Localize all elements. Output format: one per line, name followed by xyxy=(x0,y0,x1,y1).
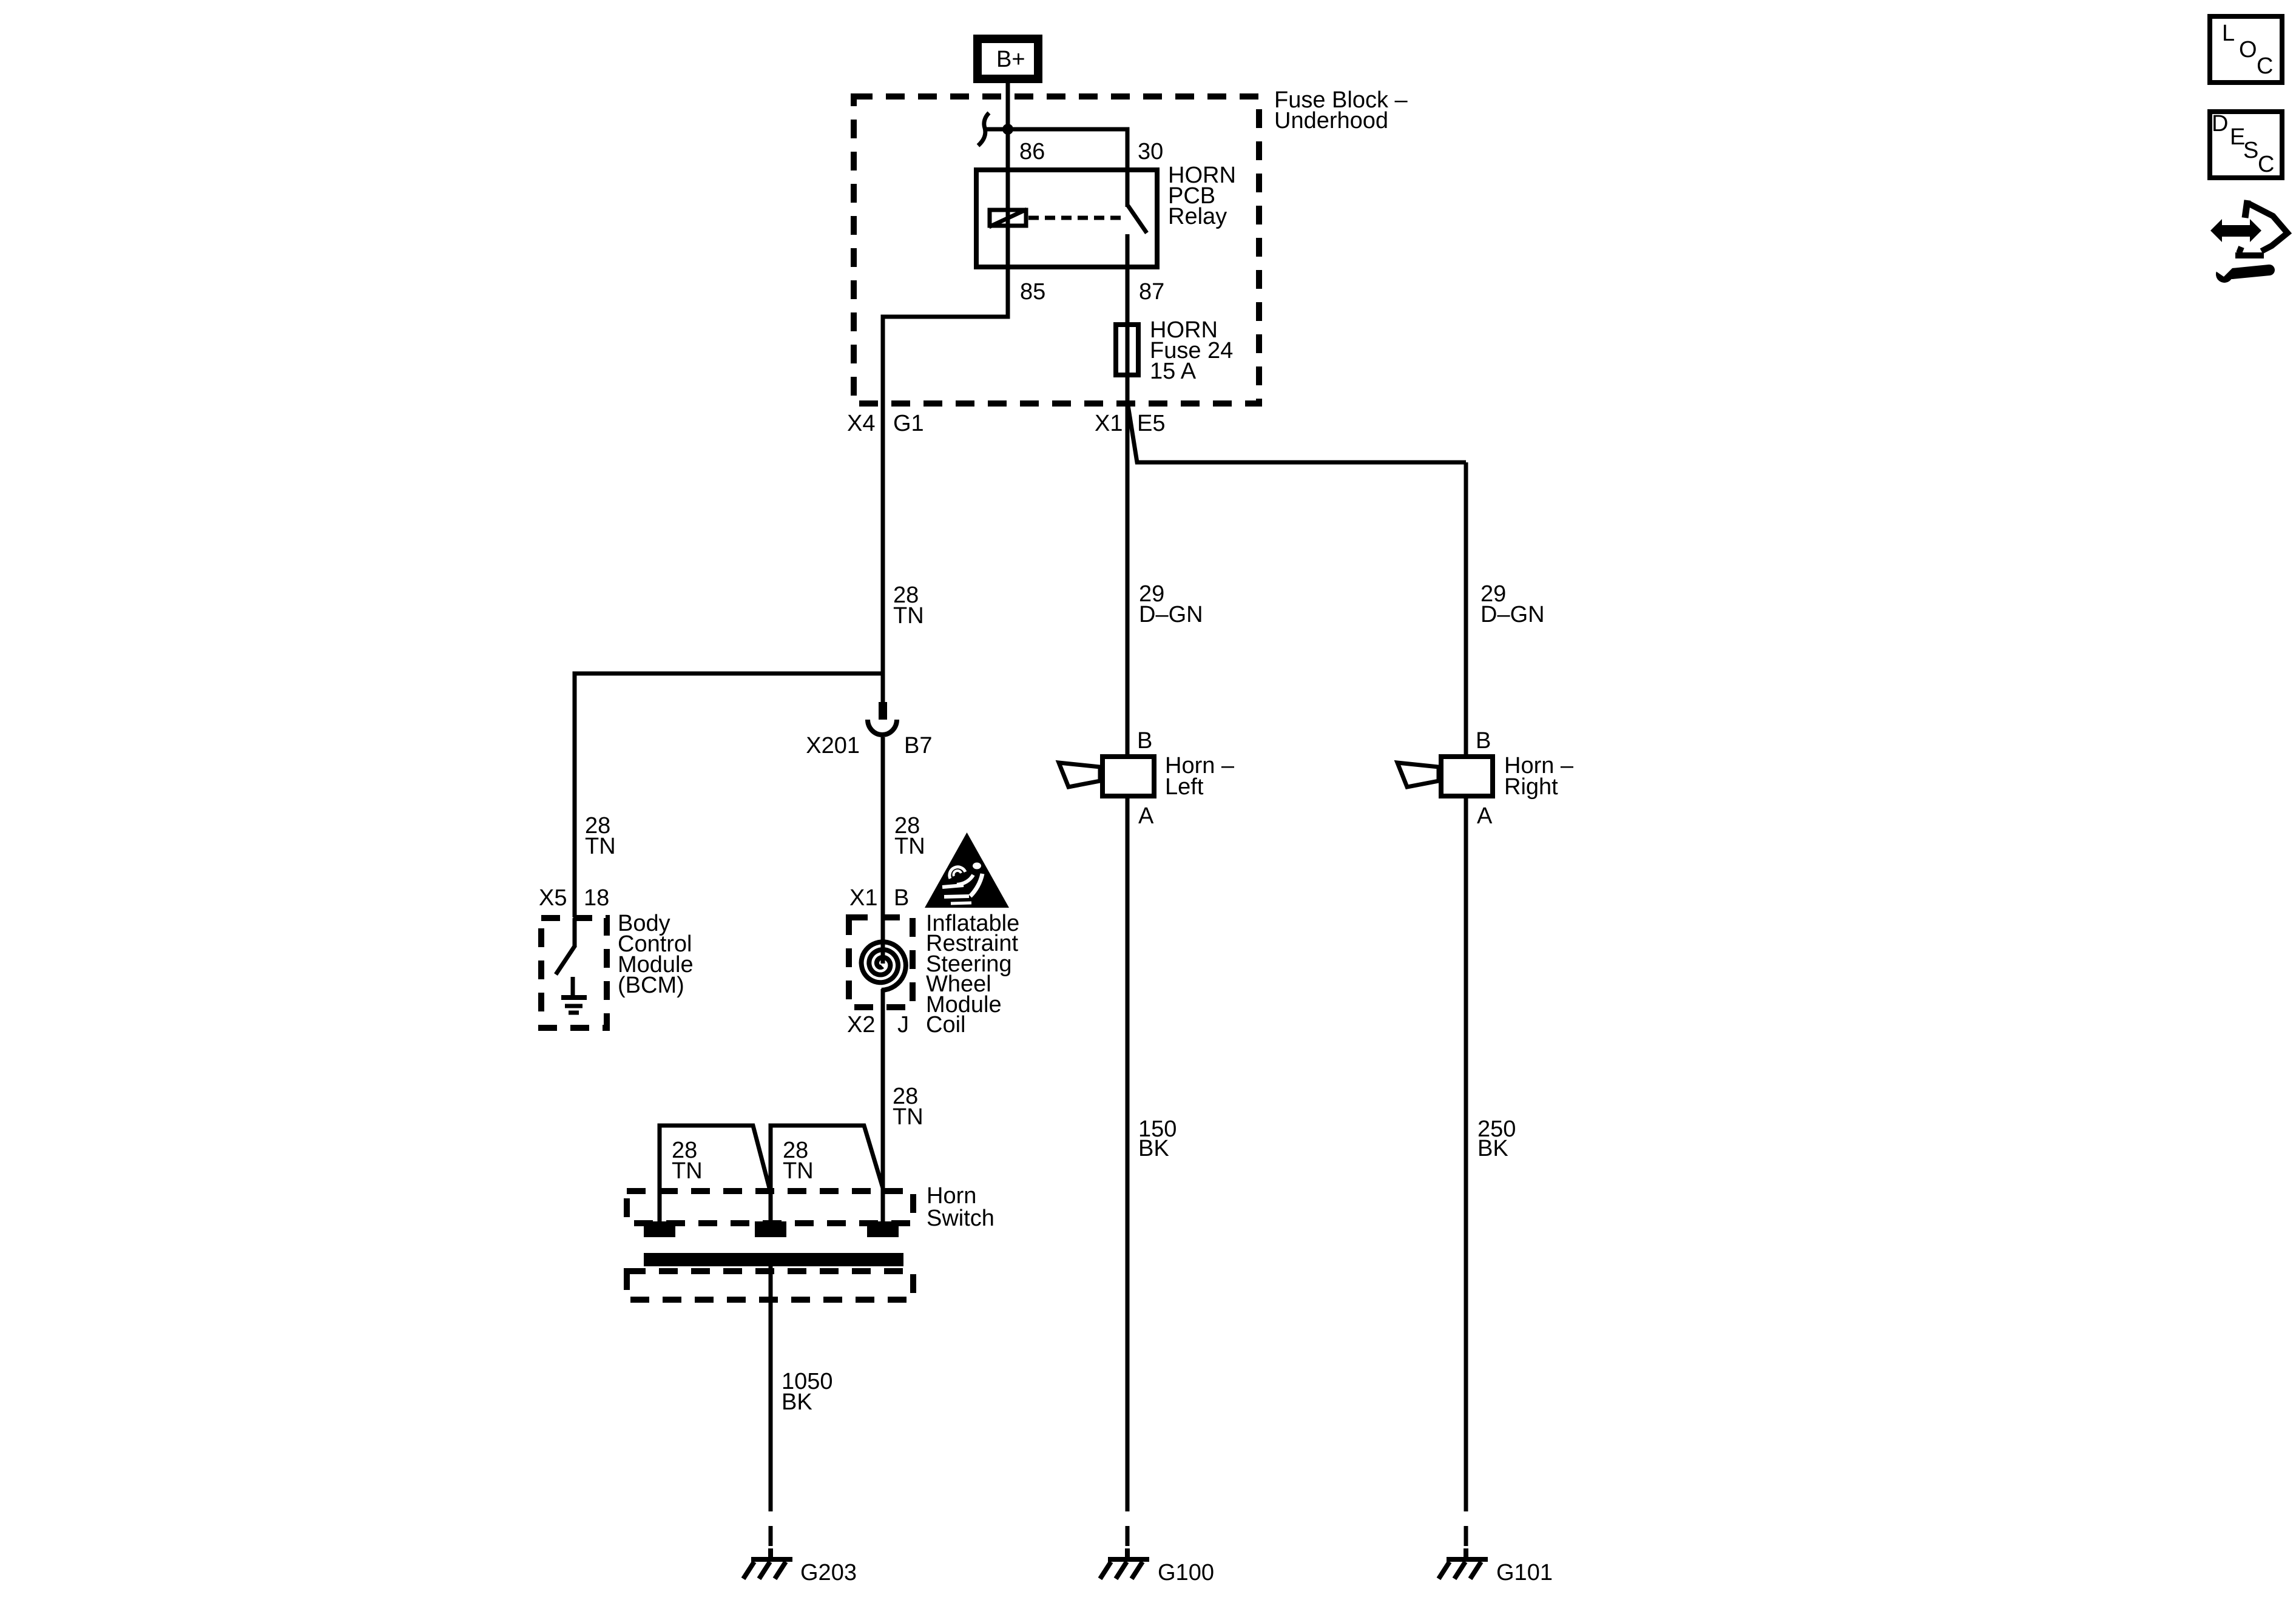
svg-text:D–GN: D–GN xyxy=(1481,602,1545,627)
svg-text:Underhood: Underhood xyxy=(1274,108,1388,133)
wire label 150 BK xyxy=(1138,1116,1177,1161)
svg-text:B: B xyxy=(894,885,909,911)
splice hook symbol xyxy=(984,127,1008,132)
ground G203 xyxy=(743,1548,792,1579)
svg-text:S: S xyxy=(2243,138,2258,163)
horn switch contact right xyxy=(867,1221,899,1237)
svg-text:B+: B+ xyxy=(996,47,1025,72)
SIR coil dashed box xyxy=(849,917,913,1007)
dashed wire to G203 xyxy=(769,1491,773,1551)
DESC legend box xyxy=(2210,111,2282,178)
label Inflatable Restraint Steering Wheel Module Coil xyxy=(926,911,1019,1038)
svg-text:Switch: Switch xyxy=(927,1206,994,1231)
horn right bell xyxy=(1397,763,1439,787)
coil clockspring spiral xyxy=(862,942,906,990)
svg-text:87: 87 xyxy=(1139,279,1164,305)
svg-text:18: 18 xyxy=(584,885,609,911)
LOC legend box xyxy=(2210,16,2282,83)
svg-text:A: A xyxy=(1138,803,1154,829)
wire loop 2 xyxy=(771,1126,883,1188)
wire out of coil xyxy=(881,989,885,1129)
svg-text:Coil: Coil xyxy=(926,1012,965,1038)
svg-text:Horn: Horn xyxy=(927,1183,976,1209)
svg-text:A: A xyxy=(1477,803,1493,829)
label Horn - Left xyxy=(1165,753,1235,800)
wire label 28 TN (coil feed) xyxy=(894,813,925,859)
service icon wrench xyxy=(2212,260,2269,283)
wire main to switch xyxy=(881,1129,885,1226)
wire label 29 D-GN right xyxy=(1481,581,1545,627)
wire label 28 TN (loop2) xyxy=(783,1138,814,1184)
ground G101 xyxy=(1439,1548,1488,1579)
svg-text:(BCM): (BCM) xyxy=(618,973,684,998)
svg-text:TN: TN xyxy=(585,834,616,859)
wire horn right to G101 xyxy=(1464,796,1468,1491)
svg-text:L: L xyxy=(2222,21,2235,46)
relay control dashed line xyxy=(1028,216,1124,220)
svg-text:X201: X201 xyxy=(806,733,860,758)
Horn Right component xyxy=(1397,757,1493,796)
BCM internal switch wire xyxy=(573,918,577,947)
relay U: HORN PCB Relay box xyxy=(976,170,1157,267)
svg-text:86: 86 xyxy=(1019,139,1045,164)
wire loop 1 xyxy=(660,1126,769,1226)
svg-text:TN: TN xyxy=(783,1158,814,1184)
horn switch movable bar xyxy=(644,1253,903,1266)
Horn Left component xyxy=(1059,757,1154,796)
relay coil wire through xyxy=(1006,170,1010,267)
svg-text:G203: G203 xyxy=(800,1560,857,1585)
wire pin 85 to X4 exit xyxy=(883,267,1008,407)
label HORN PCB Relay xyxy=(1168,163,1236,229)
ground G100 xyxy=(1100,1548,1149,1579)
wire pin 87 to fuse xyxy=(1126,267,1130,375)
svg-text:TN: TN xyxy=(893,1104,923,1130)
svg-text:Right: Right xyxy=(1504,774,1558,800)
wire label 28 TN (horn switch feed) xyxy=(893,1084,923,1130)
svg-text:X4: X4 xyxy=(847,411,875,436)
svg-text:D: D xyxy=(2212,111,2228,137)
svg-text:C: C xyxy=(2257,53,2273,79)
label Horn - Right xyxy=(1504,753,1574,800)
horn switch upper dashed box xyxy=(627,1191,913,1223)
wire B+ to relay pin 86 xyxy=(1006,79,1010,170)
wire middle contact xyxy=(769,1188,773,1226)
label Body Control Module (BCM) xyxy=(618,911,694,998)
svg-text:Relay: Relay xyxy=(1168,204,1227,229)
horn right box xyxy=(1441,757,1493,796)
junction dot xyxy=(1002,124,1013,135)
horn left bell xyxy=(1059,763,1100,787)
wire label 28 TN (circuit from G1) xyxy=(893,582,924,629)
wire horn left to G100 xyxy=(1126,796,1130,1491)
svg-text:85: 85 xyxy=(1020,279,1045,305)
wire into coil xyxy=(881,917,885,964)
svg-text:X2: X2 xyxy=(847,1012,875,1038)
BCM internal ground stub xyxy=(571,977,575,996)
horn switch contact left xyxy=(644,1221,675,1237)
svg-text:C: C xyxy=(2258,152,2274,177)
wire branch to BCM xyxy=(575,673,883,917)
relay coil box xyxy=(990,210,1026,226)
in-line connector X201 B7 male pin xyxy=(879,702,887,720)
svg-text:TN: TN xyxy=(894,834,925,859)
svg-text:O: O xyxy=(2239,37,2257,62)
svg-text:BK: BK xyxy=(1477,1136,1508,1161)
wire below X201 xyxy=(881,737,885,917)
label Fuse Block - Underhood xyxy=(1274,87,1408,133)
horn left box xyxy=(1102,757,1154,796)
in-line connector X201 B7 socket arc xyxy=(868,720,897,735)
svg-text:E5: E5 xyxy=(1137,411,1165,436)
svg-text:D–GN: D–GN xyxy=(1139,602,1203,627)
svg-text:TN: TN xyxy=(672,1158,703,1184)
wire horn switch to G203 xyxy=(769,1266,773,1491)
svg-text:TN: TN xyxy=(893,603,924,629)
relay switch contact 87 stub xyxy=(1126,234,1130,267)
BCM internal ground bars xyxy=(561,998,587,1013)
airbag SIR warning triangle xyxy=(925,832,1009,908)
Fuse Block - Underhood dashed box xyxy=(854,96,1259,403)
svg-text:G100: G100 xyxy=(1158,1560,1214,1585)
svg-text:BK: BK xyxy=(782,1389,812,1415)
fuse F: HORN Fuse 24 15 A xyxy=(1116,325,1138,375)
branch diagonal at X1 E5 xyxy=(1128,405,1466,462)
dashed wire to G100 xyxy=(1126,1491,1130,1551)
label Horn Switch xyxy=(927,1183,994,1231)
wire label 29 D-GN left xyxy=(1139,581,1203,627)
svg-text:X5: X5 xyxy=(539,885,567,911)
B+ power symbol box xyxy=(977,39,1038,79)
wire label 28 TN (BCM branch) xyxy=(585,813,616,859)
wire label 1050 BK xyxy=(782,1369,833,1415)
svg-text:G101: G101 xyxy=(1496,1560,1553,1585)
svg-text:X1: X1 xyxy=(849,885,877,911)
BCM switch blade xyxy=(556,945,575,974)
svg-text:B7: B7 xyxy=(904,733,932,758)
svg-text:15 A: 15 A xyxy=(1150,359,1197,384)
svg-text:30: 30 xyxy=(1138,139,1163,164)
service icon arrow outline xyxy=(2235,200,2288,255)
svg-text:Left: Left xyxy=(1165,774,1204,800)
wire label 250 BK xyxy=(1477,1116,1516,1161)
BCM dashed box xyxy=(541,918,607,1028)
relay switch blade xyxy=(1128,206,1147,233)
horn switch contact middle xyxy=(755,1221,786,1237)
dashed wire to G101 xyxy=(1464,1491,1468,1551)
wire junction to pin 30 xyxy=(1008,129,1127,170)
wire 28 TN down to splice xyxy=(881,407,885,704)
relay switch contact 30 stub xyxy=(1126,170,1130,207)
svg-text:B: B xyxy=(1137,728,1152,754)
wire fuse to X1 exit xyxy=(1126,375,1130,757)
label HORN Fuse 24 15 A xyxy=(1150,317,1233,384)
service icon double arrow xyxy=(2210,219,2261,242)
svg-text:B: B xyxy=(1476,728,1491,754)
horn switch lower dashed box xyxy=(627,1271,913,1300)
svg-text:J: J xyxy=(897,1012,909,1038)
svg-text:BK: BK xyxy=(1138,1136,1169,1161)
wire branch to Horn Right xyxy=(1464,462,1468,757)
svg-text:G1: G1 xyxy=(893,411,924,436)
wire label 28 TN (loop1) xyxy=(672,1138,703,1184)
svg-text:X1: X1 xyxy=(1095,411,1123,436)
relay coil diagonal xyxy=(989,209,1027,227)
